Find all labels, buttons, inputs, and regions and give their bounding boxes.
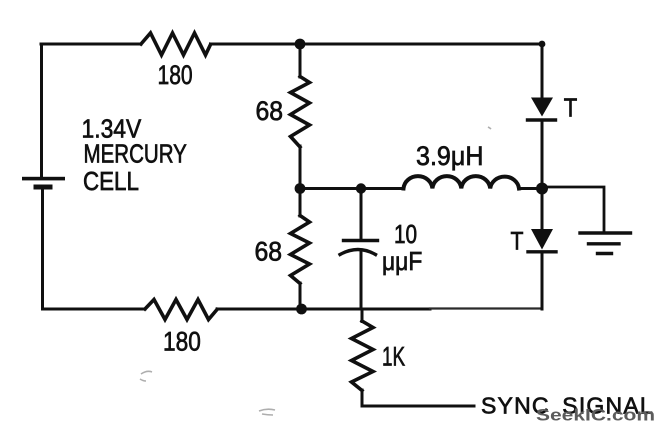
svg-text:μμF: μμF (382, 248, 422, 277)
wire top rail right (211, 43, 543, 46)
wire 68a to mid node (299, 146, 302, 189)
wire sync output (362, 390, 474, 406)
resistor R4 68 (lower) (291, 216, 310, 284)
svg-text:68: 68 (255, 238, 283, 267)
svg-text:SeekIC.com: SeekIC.com (536, 406, 655, 424)
node dot mid 68 junction (295, 183, 306, 194)
svg-text:3.9μH: 3.9μH (416, 140, 483, 171)
wire bottom rail faint right (430, 307, 542, 309)
wire 1K top stub (361, 309, 364, 322)
inductor L1 3.9uH (404, 176, 520, 188)
ground (580, 233, 631, 254)
svg-text:T: T (511, 227, 524, 255)
svg-text:180: 180 (158, 61, 193, 91)
diode D1 T (upper) (528, 98, 556, 121)
resistor R3 68 (upper) (291, 77, 310, 148)
wire 68b stubs (299, 188, 302, 216)
wire diode column upper (541, 44, 544, 98)
battery BT1 mercury cell (22, 177, 65, 190)
diode D2 T (lower) (528, 229, 556, 252)
wire between diodes (541, 120, 544, 229)
node dot capacitor junction (356, 183, 366, 193)
capacitor C1 10uuF (340, 241, 378, 255)
svg-text:180: 180 (163, 327, 201, 357)
node dot top 68 junction (295, 39, 306, 50)
wire mid rail (300, 187, 404, 190)
node dot top right corner (539, 41, 546, 48)
resistor R5 1K (352, 321, 374, 391)
svg-text:T: T (564, 94, 578, 123)
wire top rail (41, 43, 141, 46)
wire battery to bottom rail (41, 190, 44, 310)
wire left side (40, 44, 43, 176)
scan smudge marks (140, 127, 491, 415)
svg-text:MERCURY: MERCURY (84, 139, 188, 168)
wire bottom rail right (217, 308, 430, 311)
wire capacitor top stub (360, 189, 363, 241)
svg-text:CELL: CELL (83, 167, 139, 196)
svg-text:1K: 1K (382, 341, 405, 371)
wire lower diode to bottom rail (541, 252, 544, 309)
resistor R1 180 (top) (141, 33, 211, 55)
node dot diode-inductor junction (536, 183, 548, 195)
svg-text:10: 10 (394, 220, 417, 249)
wire inductor to diode node (519, 187, 542, 190)
wire capacitor bottom stub (360, 252, 363, 309)
svg-text:68: 68 (256, 97, 284, 126)
wire bottom rail left (43, 308, 146, 311)
node dot bottom 68 junction (296, 304, 307, 315)
wire to ground drop (542, 187, 604, 233)
wire 68a top stub (299, 44, 302, 77)
resistor R2 180 (bottom) (145, 300, 217, 320)
